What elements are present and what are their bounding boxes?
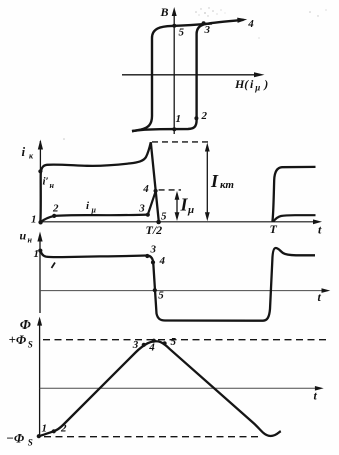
svg-text:5: 5 bbox=[158, 290, 164, 302]
svg-text:): ) bbox=[263, 77, 268, 91]
node 1 dot plot2 bbox=[38, 220, 42, 224]
axis t horizontal plot2 bbox=[40, 221, 319, 223]
scan speckles bbox=[63, 7, 326, 140]
svg-text:4: 4 bbox=[159, 255, 166, 267]
node 2 dot bbox=[194, 116, 198, 120]
axis B vertical bbox=[173, 10, 175, 134]
curve i_mu second rise bbox=[273, 215, 315, 221]
node 5 dot bbox=[172, 24, 176, 28]
svg-text:1: 1 bbox=[176, 113, 182, 125]
svg-text:−Φ: −Φ bbox=[6, 430, 25, 445]
curve i_k first pulse with spike bbox=[40, 142, 158, 222]
svg-text:i: i bbox=[22, 144, 26, 159]
arrowhead H axis bbox=[254, 72, 265, 77]
svg-text:4: 4 bbox=[148, 342, 155, 354]
svg-text:3: 3 bbox=[150, 244, 157, 256]
arrowhead at point 4 bbox=[237, 18, 247, 23]
svg-text:н: н bbox=[50, 181, 55, 190]
svg-text:2: 2 bbox=[60, 423, 67, 435]
dashed level I_mu bbox=[159, 189, 181, 191]
svg-text:1: 1 bbox=[42, 423, 48, 435]
hysteresis loop falling branch 5-1 bbox=[132, 23, 212, 131]
svg-text:3: 3 bbox=[138, 202, 145, 214]
svg-text:2: 2 bbox=[52, 203, 59, 215]
node 1 dot bbox=[172, 127, 176, 131]
arrowhead Phi axis bbox=[37, 317, 42, 326]
arrowhead i_k axis bbox=[38, 140, 43, 150]
svg-text:2: 2 bbox=[201, 110, 208, 122]
svg-text:н: н bbox=[28, 236, 33, 245]
node 4 dot plot2 bbox=[154, 189, 158, 193]
arrowhead t axis plot3 bbox=[322, 288, 331, 293]
svg-text:кт: кт bbox=[220, 179, 234, 191]
dashed peak level I_km bbox=[152, 141, 211, 143]
node 5 dot plot2 bbox=[156, 220, 161, 225]
svg-text:B: B bbox=[160, 5, 169, 19]
curve Phi triangle bbox=[39, 341, 281, 436]
axis i_k vertical bbox=[39, 141, 41, 222]
axis Phi vertical bbox=[39, 319, 41, 437]
svg-text:5: 5 bbox=[171, 336, 177, 348]
svg-text:μ: μ bbox=[254, 83, 260, 93]
svg-text:5: 5 bbox=[161, 211, 167, 223]
axis t horizontal plot4 bbox=[40, 387, 321, 389]
node 4 dot plot3 bbox=[151, 260, 155, 264]
svg-text:S: S bbox=[28, 438, 33, 448]
svg-text:μ: μ bbox=[91, 206, 97, 215]
node 1 dot plot3 bbox=[38, 249, 42, 253]
arrowhead t axis plot4 bbox=[315, 386, 324, 391]
measure arrow I_mu bbox=[176, 194, 178, 219]
node 3 dot plot3 bbox=[145, 254, 149, 258]
hysteresis loop rising branch 1-2-3-4 bbox=[132, 20, 244, 131]
svg-text:4: 4 bbox=[142, 183, 149, 195]
svg-text:+Φ: +Φ bbox=[9, 332, 27, 347]
node 3 dot bbox=[202, 21, 206, 25]
node 1 dot plot4 bbox=[37, 434, 41, 438]
arrowhead B axis bbox=[172, 7, 177, 16]
svg-text:T/2: T/2 bbox=[146, 223, 163, 237]
small gamma mark bbox=[52, 263, 56, 269]
svg-text:S: S bbox=[28, 340, 33, 350]
node 5 dot plot4 bbox=[163, 341, 167, 345]
curve i_mu slow rise 1-2-3 bbox=[41, 215, 148, 222]
node 3 dot plot2 bbox=[146, 213, 150, 217]
node 4 dot plot4 bbox=[152, 339, 156, 343]
node 2 dot plot4 bbox=[52, 429, 56, 433]
svg-text:T: T bbox=[270, 222, 278, 236]
measure arrow I_km bbox=[206, 146, 208, 218]
node i'_n dot bbox=[38, 169, 42, 173]
node 2 dot plot2 bbox=[52, 214, 56, 218]
svg-text:u: u bbox=[20, 229, 27, 243]
svg-text:1: 1 bbox=[31, 214, 37, 226]
axis H horizontal bbox=[122, 74, 256, 76]
svg-text:1: 1 bbox=[34, 248, 40, 260]
node 5 dot plot3 bbox=[153, 288, 157, 292]
axis u_n vertical bbox=[39, 235, 41, 313]
svg-text:3: 3 bbox=[132, 339, 139, 351]
node 3 dot plot4 bbox=[142, 343, 146, 347]
dashed +Phi_S level bbox=[43, 339, 330, 341]
segment 3-4 bbox=[148, 191, 156, 215]
svg-text:3: 3 bbox=[204, 24, 211, 36]
arrowhead u_n axis bbox=[37, 232, 42, 242]
svg-text:4: 4 bbox=[247, 18, 254, 30]
axis t horizontal plot3 bbox=[40, 290, 328, 292]
svg-text:i′: i′ bbox=[43, 176, 49, 188]
svg-text:5: 5 bbox=[179, 27, 185, 39]
svg-text:I: I bbox=[210, 171, 219, 191]
dashed -Phi_S level bbox=[44, 436, 262, 438]
arrowhead t axis plot2 bbox=[313, 219, 322, 224]
curve i_k second pulse bbox=[272, 167, 315, 222]
svg-text:μ: μ bbox=[187, 204, 194, 216]
curve u_n bbox=[40, 248, 315, 321]
svg-text:Φ: Φ bbox=[20, 318, 31, 333]
